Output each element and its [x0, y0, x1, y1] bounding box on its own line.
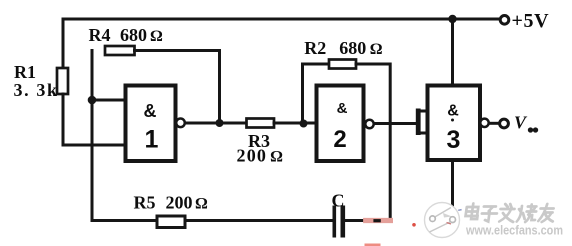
wire left rail top — [62, 19, 65, 68]
svg-text:R4680Ω: R4680Ω — [89, 25, 164, 45]
gate U2 output bubble — [365, 120, 373, 128]
wire capacitor right faded pink segment — [366, 218, 391, 223]
wire gate3 output — [489, 122, 500, 125]
svg-text:2: 2 — [333, 126, 346, 153]
resistor R4 — [105, 46, 135, 55]
svg-text:www.elecfans.com: www.elecfans.com — [465, 222, 563, 237]
terminal +5V — [500, 15, 509, 24]
wire R2 left vertical — [303, 64, 330, 124]
node supply junction — [448, 15, 456, 23]
gate U3 body — [428, 86, 481, 161]
wire bottom feedback left — [92, 219, 157, 222]
resistor R1 — [57, 68, 68, 94]
wire gate3 input stubs — [420, 111, 427, 133]
svg-text:R5200Ω: R5200Ω — [134, 192, 209, 212]
char you — [538, 204, 555, 222]
node A junction — [88, 96, 97, 105]
wire gate3 supply drop — [451, 19, 454, 86]
gate U2 body — [317, 86, 364, 162]
svg-text:+5V: +5V — [512, 10, 550, 32]
artifact red dot — [412, 223, 416, 227]
char fa — [499, 204, 516, 222]
wire R3 to gate2 input — [274, 122, 317, 125]
svg-text:200Ω: 200Ω — [237, 146, 285, 166]
watermark text dianzi fashaoyou — [465, 204, 556, 223]
wire bottom feedback to capacitor — [185, 219, 333, 222]
node D gate2 input junction — [300, 120, 308, 128]
svg-text:R2680Ω: R2680Ω — [304, 38, 383, 58]
wire gate3 bottom stub — [451, 160, 454, 205]
svg-text:R1: R1 — [14, 62, 36, 82]
svg-text:&: & — [447, 103, 459, 120]
wire gate1 upper input — [92, 99, 126, 102]
wire capacitor right — [345, 219, 368, 222]
wire left rail bottom — [62, 94, 65, 145]
wire gate2 output to gate3 input — [374, 122, 415, 125]
terminal Vo — [500, 119, 509, 128]
svg-text:&: & — [144, 101, 157, 121]
svg-text:&: & — [337, 100, 348, 117]
char dian — [465, 204, 479, 220]
gate U1 output bubble — [176, 119, 185, 128]
wire gate1 lower input — [63, 144, 126, 147]
resistor R5 — [157, 216, 185, 228]
resistor R2 — [329, 60, 356, 69]
gate U1 body — [126, 86, 176, 162]
wire R4-R5 left vertical — [91, 51, 94, 221]
wire top supply rail — [63, 18, 500, 21]
wire R4 right — [135, 51, 220, 124]
wire R2 right vertical — [356, 64, 390, 221]
artifact red bottom dash — [366, 244, 379, 246]
capacitor C right plate — [341, 206, 346, 238]
watermark logo circle — [425, 203, 462, 238]
svg-text:1: 1 — [145, 126, 159, 154]
node B gate1 output junction — [216, 119, 224, 127]
wire gate1 output to R3 — [185, 122, 247, 125]
svg-text:V: V — [514, 113, 528, 133]
gate U3 output bubble — [480, 119, 488, 127]
capacitor C left plate — [333, 206, 337, 238]
resistor R3 — [247, 119, 275, 128]
gate U3 input tie bar — [416, 109, 421, 136]
svg-text:3: 3 — [447, 126, 461, 154]
char zi — [481, 207, 498, 222]
char shao — [517, 205, 537, 223]
